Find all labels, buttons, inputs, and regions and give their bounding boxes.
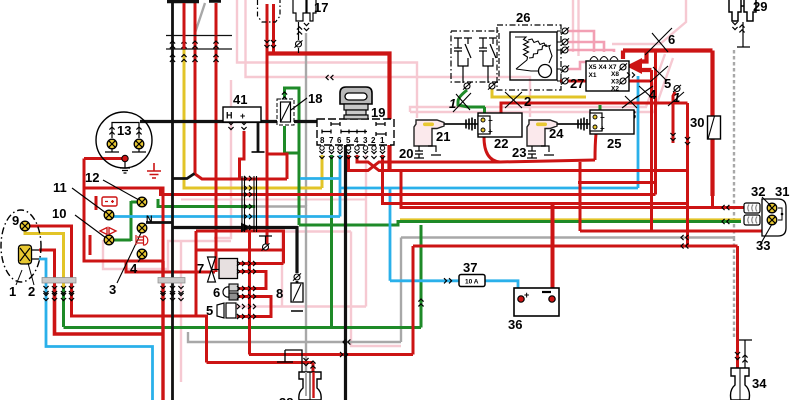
svg-text:41: 41 [233, 92, 247, 107]
svg-text:H: H [226, 111, 233, 121]
wire yellow tail pair [400, 218, 741, 220]
svg-text:21: 21 [436, 129, 450, 144]
svg-text:10 A: 10 A [465, 279, 479, 286]
top plug item16 [258, 0, 281, 22]
41 ground [252, 151, 265, 153]
wire gray connector-to-x305 [255, 207, 306, 373]
wire green console to connector [158, 199, 255, 207]
wire red pin5 bus y170 [349, 155, 596, 171]
svg-text:7: 7 [197, 261, 204, 276]
misc chevrons on verticals [418, 299, 423, 306]
wire gray riser x401 [400, 238, 402, 343]
svg-text:N: N [146, 214, 153, 224]
svg-text:32: 32 [751, 184, 765, 199]
svg-text:30: 30 [690, 115, 704, 130]
wire red x687 link [686, 103, 689, 246]
wire pale-pink P1 top to cap21 [237, 0, 417, 118]
wire red item5 drop [270, 297, 273, 317]
wire red vertical x215 [215, 36, 218, 273]
svg-text:4: 4 [130, 261, 138, 276]
battery 36 [514, 288, 559, 316]
wire gray bus y342 [188, 332, 401, 342]
wire green riser x421 [420, 225, 423, 328]
fuse 30 [708, 116, 721, 139]
lamp A charge [104, 210, 114, 220]
svg-text:8: 8 [276, 286, 283, 301]
callout 18 [291, 98, 307, 110]
wire blue regulator drop [637, 76, 640, 188]
brake switch 6 [223, 284, 238, 300]
svg-text:20: 20 [399, 146, 413, 161]
harness hatch blocks left [42, 278, 185, 284]
lamp 31b [767, 215, 777, 225]
tail light housing 31 [762, 199, 786, 236]
wire pale-pink drops to 27 [573, 0, 579, 56]
svg-text:5: 5 [664, 76, 671, 91]
wire red vertical x196 [195, 231, 198, 316]
rear connector 34 [731, 340, 753, 400]
wire red pin4 bus y162 [357, 155, 688, 171]
wire red headlamp lamp9 [29, 226, 72, 288]
wire red console right edge down [161, 261, 164, 400]
svg-text:8: 8 [320, 136, 325, 145]
svg-text:+: + [240, 111, 245, 121]
svg-text:9: 9 [12, 213, 19, 228]
wire red harness drop x249 [248, 232, 251, 355]
svg-text:31: 31 [775, 184, 789, 199]
wire green console lamps [130, 201, 133, 241]
wire red console inner [90, 196, 96, 255]
wire black 41 ground stub [257, 122, 260, 152]
lamp E beam [137, 249, 147, 259]
slash labels right cluster [622, 28, 690, 145]
svg-text:X4: X4 [599, 64, 607, 71]
svg-text:5: 5 [206, 303, 213, 318]
callout 33 line [760, 224, 772, 245]
lamp D turn [104, 235, 114, 245]
breaker unit 1 [454, 38, 462, 48]
key symbol [340, 87, 372, 119]
svg-text:6: 6 [668, 32, 675, 47]
chevrons blue regulator [627, 72, 635, 77]
wire pale-pink P2 top to cap24 [246, 0, 531, 117]
wire pale-pink pin3 drop [365, 155, 367, 307]
wire black bus y227 to item8 [173, 228, 298, 274]
wire pale-pink vertical x181 [180, 242, 182, 382]
wire pale-pink item5 to riser [234, 305, 366, 307]
svg-text:26: 26 [516, 10, 530, 25]
generator 26 right box [497, 25, 561, 90]
27 top arcs [590, 57, 618, 61]
wire red vertical x736 to item34 [736, 246, 739, 368]
spark plug cap 24 [527, 120, 557, 146]
wire green fuse18 down [285, 126, 300, 153]
lamp 2 headlight bulb [19, 245, 40, 264]
wire red bus y196 [161, 188, 656, 195]
wire red 26 bottom right [560, 80, 586, 83]
wire red left drop2 to bottom [55, 288, 164, 334]
wire black N lamp link [146, 221, 173, 224]
wire red coil22 plus drop [484, 137, 500, 162]
svg-text:24: 24 [549, 126, 564, 141]
beam icon [136, 235, 148, 245]
wire red plug wire B [272, 4, 275, 54]
wire pale-pink console riser [214, 80, 231, 238]
ignition coil 22 [478, 113, 522, 137]
wire green lampD stub [114, 239, 131, 242]
wire green coil22 drop [483, 107, 486, 117]
harness connector column x246-253 [242, 176, 257, 232]
wire red vertical x413 [412, 246, 415, 355]
ignition switch 19 [317, 119, 394, 145]
wire blue headlamp drop [39, 259, 46, 288]
wire gray headlamp stub [62, 297, 64, 304]
wire pale-pink row y199 [181, 199, 366, 201]
wire blue bus y188 [340, 187, 638, 190]
wire red plug wire A long [266, 4, 269, 244]
wire pink 26-to-27 hook b [568, 42, 604, 52]
item 17 plug [293, 0, 316, 21]
svg-text:X1: X1 [589, 72, 597, 79]
wire yellow pin8 drop [321, 155, 324, 188]
svg-text:22: 22 [494, 136, 508, 151]
lamp 13a [107, 139, 117, 149]
wire red connector38 drop [312, 363, 315, 373]
connector arrows top-left block [170, 41, 219, 62]
svg-text:2: 2 [524, 94, 531, 109]
headlamp shell ellipse [1, 210, 41, 282]
wire red bolt1 stub [673, 92, 675, 143]
breaker unit 2 [479, 38, 487, 48]
wire red bus y362 [207, 361, 314, 364]
circle13 internal wiring [105, 123, 146, 153]
wire blue left to bottom edge [46, 288, 153, 400]
callout 4 line [138, 258, 141, 262]
bolt terminal above item7 [262, 243, 270, 250]
bolt under 17 [295, 40, 303, 47]
wire red console tail [126, 261, 215, 272]
label X 2 yellow [505, 92, 531, 109]
wire red item7 row1 [239, 262, 284, 265]
bulb holder a [744, 203, 760, 213]
svg-text:12: 12 [85, 170, 99, 185]
wire red vertical x194 to bus179 [195, 3, 287, 179]
spark plug cap 21 [414, 120, 444, 146]
svg-text:−: − [600, 113, 605, 122]
svg-text:1: 1 [673, 90, 680, 105]
svg-text:+: + [524, 290, 529, 300]
horn 7 [208, 257, 238, 282]
generator 26 left box [451, 31, 499, 83]
speedometer circle 13 [96, 112, 152, 168]
wire red mid link y102 [501, 103, 688, 113]
wire green coil25 drop [599, 105, 602, 111]
wire blue to fuse37 [390, 279, 459, 282]
wire gray diag from top connector [195, 3, 205, 33]
ground under circle13 [120, 162, 130, 173]
svg-text:X7: X7 [609, 64, 617, 71]
svg-text:11: 11 [53, 180, 67, 195]
fuse 37 [459, 275, 485, 287]
connector arrows frame wires [160, 286, 183, 301]
black arrowhead into harness [241, 223, 252, 232]
label slash 1 green [449, 93, 471, 112]
svg-text:23: 23 [512, 145, 526, 160]
wire black circle13 bus y121 [140, 122, 346, 400]
wire red 27 right to x650 [627, 80, 652, 83]
fuse 18 [277, 99, 294, 125]
connector arrows harness junction [244, 176, 252, 230]
connector arrows circle13 lamps [109, 127, 114, 134]
wire pink 27 left feed [568, 62, 586, 69]
callout 11 line [72, 188, 106, 213]
wire pale-pink riser x282 [281, 232, 283, 307]
lamp B speedo [137, 197, 147, 207]
svg-text:10: 10 [52, 206, 66, 221]
wire red bus y246 [413, 245, 738, 248]
svg-text:X2: X2 [611, 86, 619, 93]
wire red bus y231 item7 [196, 231, 284, 264]
wire green left drop below connector [62, 288, 65, 327]
svg-text:2: 2 [371, 136, 376, 145]
regulator 27 [586, 61, 629, 93]
spark plug 23 [527, 146, 554, 158]
svg-text:−: − [488, 116, 493, 125]
wire pink 26-to-27 hook c [568, 50, 614, 52]
wire red loop y154 [269, 154, 288, 179]
wire red bus y231 tail [580, 230, 763, 233]
svg-text:18: 18 [308, 91, 322, 106]
svg-text:38: 38 [279, 395, 293, 400]
wire pink 26-to-27 hook a [568, 31, 594, 52]
winding [515, 37, 552, 69]
HT terminal cone 22 [466, 118, 478, 131]
wire blue instrument bus y216 [113, 215, 340, 218]
svg-text:1: 1 [9, 284, 16, 299]
red ground symbol right [147, 163, 161, 178]
svg-text:17: 17 [314, 0, 328, 15]
wire yellow instrument riser [184, 49, 322, 188]
wire yellow X2 from 26 [492, 89, 586, 97]
item 41 box [223, 107, 261, 122]
svg-text:+: + [488, 127, 493, 136]
wire red bus y354 [249, 353, 413, 356]
flasher relay 8 [291, 273, 303, 311]
svg-text:3: 3 [109, 282, 116, 297]
svg-text:25: 25 [607, 136, 621, 151]
svg-text:19: 19 [371, 105, 385, 120]
ground near 38 [277, 350, 302, 372]
wire red thick fuse30 feed [710, 51, 714, 197]
svg-text:X5: X5 [589, 64, 597, 71]
wire red coil25 plus drop [595, 134, 596, 160]
wire gray item17 drop [305, 33, 307, 206]
wire yellow headlamp to left drop [25, 231, 64, 288]
wire gray bus y237 to tail [401, 236, 734, 238]
ignition coil 25 [590, 110, 634, 134]
svg-text:29: 29 [753, 0, 767, 14]
wire green lampB stub [131, 201, 137, 204]
wire red top vert x183 [184, 3, 216, 49]
HT lead 24-25 [557, 123, 578, 125]
wire red battery minus riser [551, 204, 555, 289]
bulb holder b [744, 215, 760, 225]
bolt 1 terminal [673, 85, 681, 92]
svg-text:1: 1 [449, 96, 456, 111]
svg-text:6: 6 [337, 136, 342, 145]
wire red cluster x655 [654, 51, 657, 195]
wire red console frame [84, 188, 163, 261]
switch 5 [217, 303, 236, 318]
bottom bus chevrons [343, 339, 350, 344]
wire red headlamp lamp2 [39, 250, 55, 288]
svg-text:13: 13 [117, 123, 131, 138]
lamp holder contact [122, 155, 128, 161]
callout 2 line [28, 263, 34, 285]
wire black item8 ground [296, 281, 299, 302]
wire pale-pink x345 down to y346 [351, 232, 401, 347]
bottom connector 38 [299, 358, 321, 400]
wire pale-pink coil sheath upper [410, 54, 665, 112]
wire pale-pink console loop [103, 240, 231, 269]
wire red thick top loop [267, 54, 390, 171]
spark plug 20 [414, 146, 441, 158]
wire red row y182 [578, 181, 656, 184]
wire red fuse30 drop join [711, 195, 714, 208]
svg-text:+: + [600, 124, 605, 133]
lamp 13b [134, 139, 144, 149]
red arrowhead into regulator [626, 58, 642, 74]
wire blue battery riser [389, 188, 392, 281]
wire blue branch y178 [300, 177, 340, 180]
item 29 connector [729, 0, 756, 21]
wire red bus y250 item7 [196, 249, 284, 252]
wire red x650 drop [650, 70, 653, 231]
svg-text:34: 34 [752, 376, 767, 391]
callout 10 line [75, 215, 106, 238]
wire red x580 link [579, 162, 582, 231]
26 right terminals [561, 27, 569, 34]
wire green pin7 drop [330, 155, 333, 328]
svg-text:4: 4 [354, 136, 359, 145]
turn icon [100, 228, 116, 235]
wire pale-pink regulator diagonal [612, 0, 686, 44]
HT lead 21-22 [444, 123, 466, 125]
wire green bus y327 [64, 326, 422, 329]
wire red circle13 feed [84, 159, 122, 189]
top-left connector block [166, 36, 232, 50]
callout 1 line [16, 270, 22, 285]
wire pale-pink x282 to x345 [282, 230, 351, 232]
svg-text:X8: X8 [611, 71, 619, 78]
callout 3 line [117, 233, 141, 283]
wire red vertical x401 tail feed [401, 171, 744, 208]
svg-text:27: 27 [570, 76, 584, 91]
svg-text:2: 2 [28, 284, 35, 299]
wire green bus y225 [299, 222, 741, 226]
connector arrows under switch 19 [319, 151, 385, 159]
wire blue pin6 drop [339, 155, 342, 217]
svg-text:4: 4 [649, 87, 657, 102]
svg-text:X3: X3 [611, 79, 619, 86]
charge icon [102, 197, 117, 206]
wire red pin1 bus y203 [383, 155, 688, 204]
lamp 9 parking [20, 221, 30, 231]
wire black y178 to red join [173, 174, 195, 179]
svg-text:5: 5 [346, 136, 351, 145]
svg-text:36: 36 [508, 317, 522, 332]
pin terminals of switch 19 [320, 146, 385, 150]
wire pale-pink coil sheath lower [410, 58, 673, 112]
wire gray item29 drop [733, 50, 735, 338]
item17 chevrons [297, 27, 302, 34]
wire red 41 plus drop [240, 131, 245, 179]
svg-text:1: 1 [380, 136, 385, 145]
tail chevrons [722, 205, 729, 210]
chevrons on pale pink P2 [326, 75, 333, 80]
wire black vertical x172 [171, 2, 174, 400]
svg-text:7: 7 [329, 136, 334, 145]
wire green fuse18 top elbow [285, 88, 300, 225]
svg-text:37: 37 [463, 260, 477, 275]
wire red item7 row2 link [239, 272, 266, 289]
lamp 31a [767, 203, 777, 213]
svg-text:6: 6 [213, 285, 220, 300]
wire green 26 to coils [458, 90, 485, 107]
wire red item6 row2 link [237, 297, 271, 317]
connector arrows item16 wires [264, 40, 269, 48]
wire black top bar [167, 0, 221, 3]
wire red left drop1 to y316 [72, 288, 207, 363]
headlamp connector chevrons [43, 286, 74, 301]
callout 12 line [103, 180, 139, 200]
lamp C neutral [137, 223, 147, 233]
HT terminal cone 25 [578, 118, 590, 131]
wire red thick regulator arrow [623, 51, 713, 71]
wire blue fuse37 to battery [485, 281, 518, 288]
callout 32 line [762, 197, 771, 206]
svg-text:3: 3 [363, 136, 368, 145]
